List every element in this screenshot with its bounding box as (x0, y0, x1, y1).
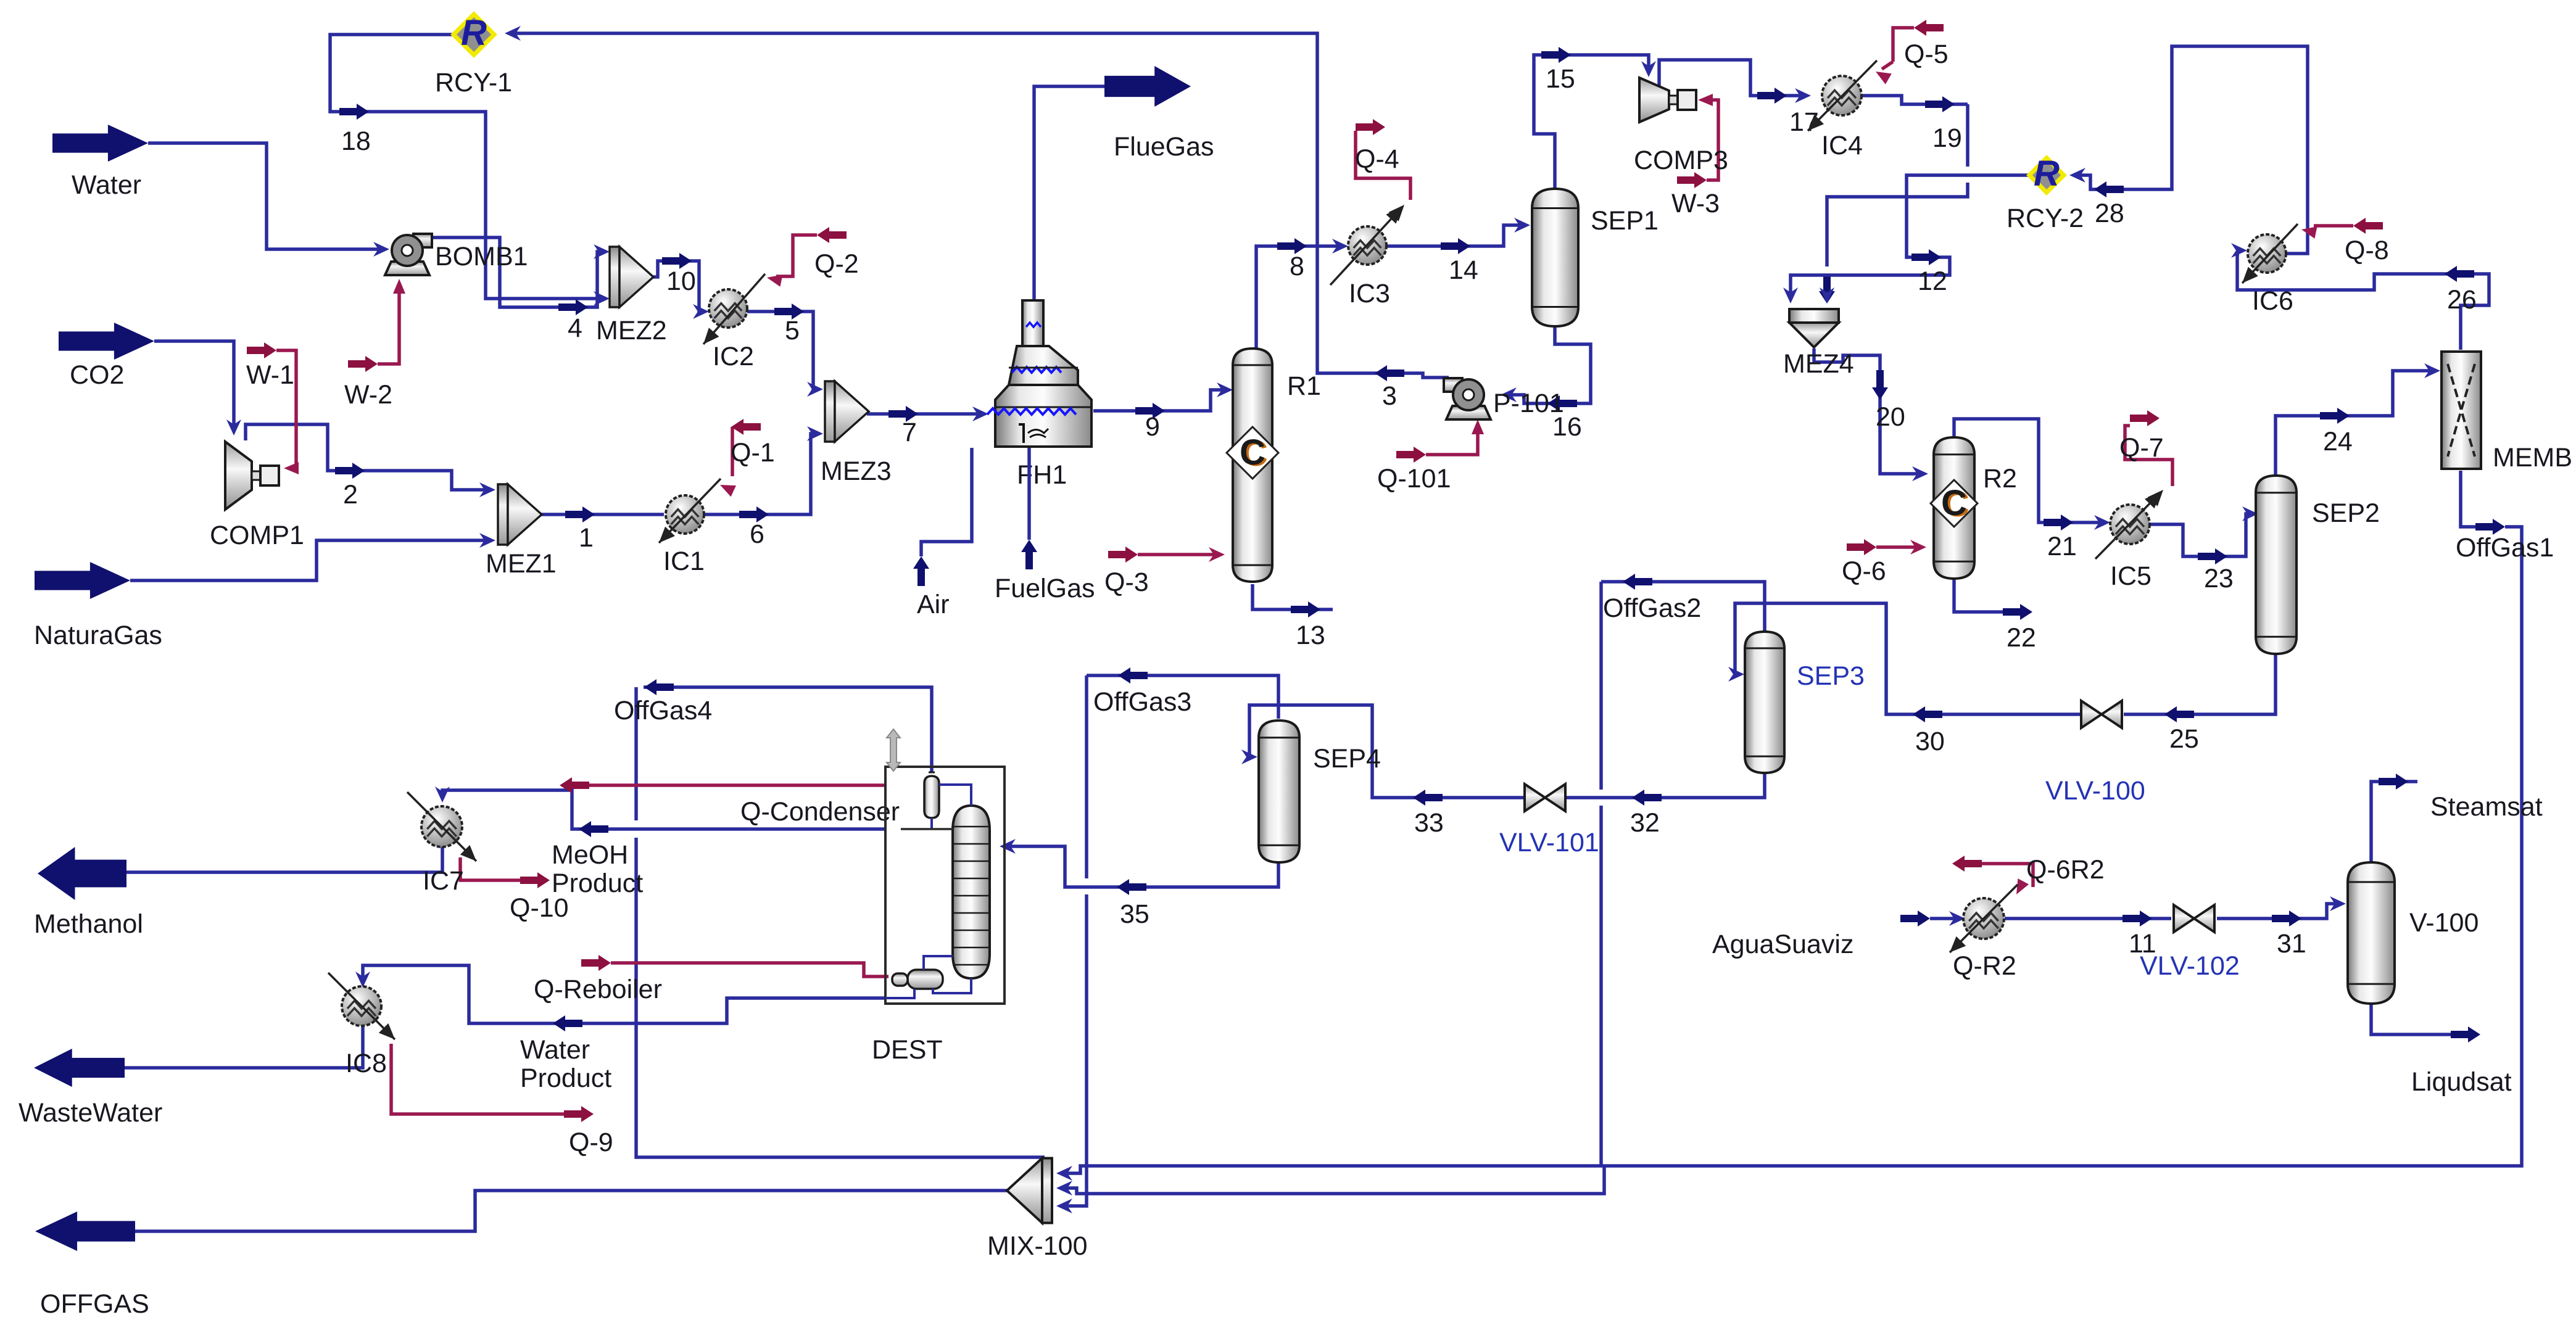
svg-text:VLV-102: VLV-102 (2140, 951, 2240, 981)
svg-text:IC4: IC4 (1821, 131, 1863, 160)
wire OffGas3 SEP4 top to MIX-100 bottom inlet (1087, 675, 1278, 719)
svg-text:COMP1: COMP1 (210, 521, 304, 550)
wire DEST column top to condenser (939, 785, 971, 806)
wire WasteWater from IC8 (125, 1026, 363, 1068)
wire FuelGas into FH1 (1027, 448, 1031, 540)
reactor R1 (1233, 349, 1272, 582)
valve VLV-100 (2081, 701, 2122, 728)
svg-text:MeOH: MeOH (552, 840, 628, 870)
mixer MIX-100 (leftward) (1042, 1158, 1052, 1223)
svg-text:1: 1 (579, 523, 594, 553)
wire stream 12 RCY-2 to MEZ4 left inlet (1791, 175, 2029, 295)
DEST condenser (924, 776, 939, 818)
separator SEP4 (1259, 720, 1299, 862)
wire stream 31 VLV-102 to V-100 (2217, 904, 2338, 919)
furnace FH1 (987, 300, 1091, 447)
svg-text:FuelGas: FuelGas (995, 574, 1095, 603)
svg-text:Q-4: Q-4 (1355, 144, 1399, 174)
svg-text:MEZ3: MEZ3 (821, 456, 892, 486)
svg-text:10: 10 (666, 266, 696, 296)
energy stream Q-3 to R1 (1138, 553, 1217, 556)
svg-text:MEZ2: MEZ2 (596, 316, 667, 345)
wire Water Product DEST to IC8 (363, 965, 885, 1023)
svg-text:33: 33 (1414, 808, 1444, 838)
wire OffGas2 SEP3 top to MIX-100 top inlet (1601, 582, 1765, 634)
svg-text:Q-6R2: Q-6R2 (2026, 855, 2105, 885)
wire NaturaGas to MEZ1 lower inlet (130, 540, 487, 580)
wire stream 6 IC1 to MEZ3 lower inlet (705, 434, 815, 514)
heat exchanger Q-R2 (1963, 898, 2004, 939)
heat exchanger IC1 (666, 495, 704, 534)
svg-text:15: 15 (1546, 64, 1575, 94)
wire stream 24 SEP2 top to MEMB (2276, 371, 2432, 476)
energy stream Q-Condenser from DEST (589, 783, 885, 787)
wire stream 9 FH1 to R1 (1093, 390, 1225, 411)
mixer MEZ4 (downward) (1789, 309, 1839, 323)
product stream WasteWater (block arrow) (34, 1049, 125, 1087)
wire stream 17 COMP3 outlet to IC4 (1659, 60, 1803, 96)
svg-text:IC7: IC7 (423, 866, 464, 896)
svg-text:35: 35 (1120, 899, 1149, 929)
valve VLV-102 (2174, 905, 2214, 932)
wire DEST column bottom to reboiler (933, 978, 971, 993)
product stream OFFGAS (block arrow) (35, 1212, 135, 1251)
svg-text:VLV-101: VLV-101 (1499, 828, 1599, 857)
svg-text:R1: R1 (1287, 371, 1321, 401)
membrane MEMB (2441, 352, 2481, 469)
wire DEST condenser bottom reflux (930, 818, 933, 829)
wire stream 16 SEP1 bottom to P-101 (1509, 324, 1591, 403)
wire stream 19 IC4 to MEZ4 right inlet (1862, 96, 1968, 104)
separator SEP2 (2256, 476, 2296, 654)
svg-text:W-2: W-2 (344, 380, 392, 410)
svg-text:Water: Water (520, 1035, 590, 1065)
svg-text:32: 32 (1630, 808, 1660, 838)
svg-text:14: 14 (1449, 255, 1478, 285)
svg-text:21: 21 (2047, 532, 2077, 561)
svg-text:Q-9: Q-9 (569, 1128, 613, 1157)
wire stream 32 SEP3 bottom to VLV-101 (1567, 771, 1765, 798)
svg-text:MEZ4: MEZ4 (1783, 349, 1854, 379)
mixer MEZ1 (498, 484, 508, 545)
svg-text:Air: Air (917, 590, 950, 619)
svg-text:MIX-100: MIX-100 (987, 1231, 1088, 1261)
product stream FlueGas (block arrow) (1104, 66, 1191, 107)
wire stream 18 RCY-1 to MEZ2 top inlet (330, 35, 602, 299)
svg-text:Q-2: Q-2 (814, 249, 859, 279)
svg-text:Q-R2: Q-R2 (1953, 951, 2016, 981)
svg-text:IC6: IC6 (2252, 286, 2293, 316)
wire stream 2 COMP1 outlet to MEZ1 upper inlet (246, 424, 487, 490)
svg-text:WasteWater: WasteWater (19, 1098, 162, 1128)
wire CO2 to COMP1 (154, 341, 234, 427)
wire stream 3 P-101 to RCY-1 top line (512, 33, 1449, 378)
svg-text:19: 19 (1932, 123, 1962, 153)
svg-text:13: 13 (1296, 621, 1325, 650)
DEST column with trays (953, 806, 990, 978)
wire OFFGAS from MIX-100 outlet (135, 1191, 1009, 1231)
wire Liqudsat from V-100 bottom (2371, 1004, 2451, 1034)
energy stream Q-2 to IC2 (776, 235, 817, 276)
svg-text:24: 24 (2323, 427, 2353, 456)
svg-text:23: 23 (2204, 564, 2234, 593)
energy stream Q-7 from IC5 (2125, 426, 2172, 486)
feed stream CO2 (block arrow) (59, 323, 154, 360)
wire stream 21 R2 top to IC5 (1954, 419, 2102, 522)
wire DEST reboiler vapor return (924, 956, 953, 970)
svg-text:MEZ1: MEZ1 (486, 549, 557, 579)
wire stream 28 IC6 to RCY-2 (2077, 46, 2308, 254)
wire stream 5 IC2 to MEZ3 top inlet (747, 312, 815, 389)
compressor COMP1 (225, 442, 252, 510)
svg-text:OffGas4: OffGas4 (614, 696, 712, 725)
wire stream 23 IC5 to SEP2 (2150, 514, 2250, 556)
heat exchanger IC6 (2248, 234, 2286, 273)
svg-text:9: 9 (1145, 412, 1160, 442)
svg-text:Q-3: Q-3 (1104, 568, 1149, 597)
svg-text:22: 22 (2007, 623, 2036, 653)
svg-text:IC5: IC5 (2110, 561, 2151, 591)
wire AguaSuaviz to Q-R2 (1930, 917, 1957, 920)
feed stream Water (block arrow) (52, 125, 148, 162)
svg-text:30: 30 (1915, 727, 1945, 756)
svg-text:3: 3 (1382, 381, 1397, 411)
svg-text:2: 2 (343, 480, 358, 510)
reactor R2 (1934, 437, 1974, 579)
heat exchanger IC8 (342, 986, 381, 1026)
wire stream 7 MEZ3 to FH1 (867, 412, 980, 416)
svg-text:W-1: W-1 (246, 360, 294, 390)
svg-text:R: R (461, 13, 487, 53)
recycle RCY-1 (453, 14, 494, 55)
svg-text:Q-5: Q-5 (1904, 39, 1949, 69)
energy stream Q-9 from IC8 (391, 1044, 564, 1114)
wire stream 30 VLV-100 to SEP3 (1735, 603, 2081, 714)
energy stream Q-1 to IC1 (731, 427, 734, 476)
svg-text:CO2: CO2 (70, 360, 124, 390)
svg-text:SEP1: SEP1 (1591, 206, 1659, 236)
svg-text:5: 5 (785, 316, 800, 345)
svg-text:7: 7 (902, 418, 917, 447)
wire stream 25 SEP2 bottom to VLV-100 (2124, 652, 2276, 714)
wire stream 11 Q-R2 to VLV-102 (2005, 917, 2171, 920)
svg-text:MEMB: MEMB (2493, 443, 2572, 473)
wire FlueGas from FH1 stack (1034, 86, 1104, 300)
heat exchanger IC5 (2110, 505, 2150, 544)
energy stream Q-8 to IC6 (2314, 224, 2353, 228)
svg-text:SEP2: SEP2 (2312, 498, 2380, 528)
svg-text:Methanol: Methanol (34, 909, 143, 939)
svg-text:Q-10: Q-10 (510, 893, 569, 923)
svg-text:25: 25 (2169, 724, 2199, 754)
svg-text:SEP4: SEP4 (1313, 744, 1381, 774)
svg-text:C: C (1240, 432, 1265, 473)
wire DEST bottoms out (885, 989, 914, 998)
svg-text:C: C (1941, 483, 1967, 523)
valve VLV-101 (1525, 784, 1565, 811)
wire stream 8 R1 top to IC3 (1256, 246, 1340, 349)
wire stream 22 R2 bottom purge (1954, 579, 2030, 612)
svg-text:8: 8 (1290, 252, 1304, 281)
wire Air into FH1 (921, 448, 972, 556)
energy stream W-3 to COMP3 (1704, 100, 1718, 180)
svg-text:NaturaGas: NaturaGas (34, 621, 162, 650)
wire OffGas4 DEST condenser to MIX-100 (644, 687, 932, 772)
svg-text:SEP3: SEP3 (1797, 661, 1865, 691)
wire stream 10 MEZ2 to IC2 (652, 261, 701, 312)
wire Steamsat from V-100 top (2371, 782, 2417, 864)
svg-text:Water: Water (72, 170, 141, 200)
wire stream 33 VLV-101 to SEP4 (1249, 705, 1524, 798)
svg-text:OffGas2: OffGas2 (1603, 593, 1701, 623)
svg-text:R: R (2034, 154, 2060, 194)
wire stream 35 SEP4 bottom to DEST feed (1008, 846, 1278, 887)
svg-text:Q-101: Q-101 (1377, 464, 1451, 493)
svg-text:Q-1: Q-1 (731, 438, 775, 468)
product stream Methanol (block arrow) (38, 847, 126, 900)
svg-text:Q-7: Q-7 (2119, 433, 2164, 463)
svg-text:18: 18 (341, 126, 371, 156)
energy stream Q-5 to IC4 (1893, 28, 1914, 62)
svg-text:RCY-1: RCY-1 (435, 68, 512, 97)
wire OffGas1 MEMB bottom to MIX-100 middle inlet (2461, 471, 2475, 527)
svg-text:4: 4 (568, 313, 582, 343)
energy stream W-1 to COMP1 (276, 350, 296, 468)
separator SEP1 (1532, 189, 1578, 326)
svg-text:V-100: V-100 (2409, 908, 2479, 938)
energy stream Q-10 from IC7 (460, 857, 520, 880)
svg-text:BOMB1: BOMB1 (435, 242, 528, 271)
svg-text:OffGas3: OffGas3 (1093, 687, 1191, 717)
column sub-flowsheet boundary DEST (885, 767, 1004, 1004)
svg-text:31: 31 (2277, 929, 2306, 959)
wire stream 20 MEZ4 to R2 (1814, 349, 1920, 474)
svg-text:Q-8: Q-8 (2345, 236, 2389, 265)
svg-text:Product: Product (520, 1063, 611, 1093)
svg-text:IC1: IC1 (663, 547, 705, 576)
wire Methanol from IC7 (126, 846, 442, 872)
svg-text:RCY-2: RCY-2 (2007, 204, 2084, 233)
svg-text:R2: R2 (1983, 464, 2017, 493)
svg-text:Q-Condenser: Q-Condenser (740, 797, 900, 827)
energy stream Q-Reboiler to DEST (611, 963, 888, 976)
svg-text:28: 28 (2095, 199, 2124, 228)
svg-text:Liqudsat: Liqudsat (2411, 1067, 2512, 1097)
svg-text:W-3: W-3 (1671, 189, 1720, 218)
svg-text:DEST: DEST (872, 1035, 943, 1065)
svg-text:COMP3: COMP3 (1634, 146, 1728, 175)
feed stream NaturaGas (block arrow) (35, 562, 130, 599)
svg-text:OffGas1: OffGas1 (2456, 533, 2554, 563)
energy stream Q-6R2 to Q-R2 exchanger (1982, 864, 2033, 887)
svg-text:IC2: IC2 (713, 342, 754, 371)
wire MeOH Product DEST to IC7 (442, 790, 885, 829)
separator SEP3 (1745, 632, 1784, 773)
mixer MEZ3 (825, 381, 835, 442)
DEST reboiler (908, 970, 943, 989)
wire Water to BOMB1 (148, 143, 381, 249)
svg-text:20: 20 (1876, 402, 1905, 432)
wire stream 14 IC3 to SEP1 (1386, 225, 1522, 246)
energy stream Q-6 to R2 (1876, 545, 1918, 549)
recycle RCY-2 (2029, 158, 2064, 192)
svg-text:P-101: P-101 (1493, 389, 1564, 418)
pump BOMB1 (385, 262, 429, 275)
svg-text:FH1: FH1 (1017, 460, 1067, 490)
stream 2 arrow and label (335, 463, 365, 479)
wire stream 15 SEP1 top to COMP3 (1534, 55, 1649, 191)
heat exchanger IC4 (1822, 76, 1862, 115)
svg-text:OFFGAS: OFFGAS (40, 1289, 149, 1317)
mixer MEZ2 (610, 247, 619, 307)
wire stream 1 MEZ1 to IC1 (532, 513, 664, 516)
cursor artifact near DEST (887, 729, 900, 771)
svg-text:VLV-100: VLV-100 (2045, 776, 2145, 806)
compressor COMP3 (1639, 78, 1669, 122)
energy stream W-2 to BOMB1 (378, 285, 399, 364)
svg-text:12: 12 (1918, 266, 1947, 296)
svg-text:AguaSuaviz: AguaSuaviz (1712, 930, 1854, 959)
svg-text:FlueGas: FlueGas (1114, 132, 1214, 162)
wire stream 13 R1 bottom purge (1253, 584, 1333, 609)
svg-text:Steamsat: Steamsat (2430, 792, 2543, 822)
svg-text:Q-Reboiler: Q-Reboiler (534, 975, 662, 1004)
heat exchanger IC2 (709, 289, 747, 328)
heat exchanger IC7 (421, 806, 462, 847)
svg-text:Q-6: Q-6 (1842, 556, 1886, 586)
svg-text:IC8: IC8 (346, 1049, 387, 1078)
wire stream 26 MEMB top to IC6 (2382, 274, 2489, 350)
energy stream Q-101 to P-101 (1426, 427, 1478, 455)
wire stream 4 BOMB1 outlet to MEZ2 bottom inlet (430, 237, 602, 307)
pump P-101 (1446, 406, 1491, 419)
svg-text:6: 6 (750, 519, 764, 549)
vessel V-100 (2348, 862, 2395, 1004)
energy stream Q-4 from IC3 (1356, 131, 1410, 200)
svg-text:IC3: IC3 (1349, 279, 1390, 308)
svg-text:26: 26 (2447, 285, 2477, 315)
heat exchanger IC3 (1348, 226, 1386, 265)
